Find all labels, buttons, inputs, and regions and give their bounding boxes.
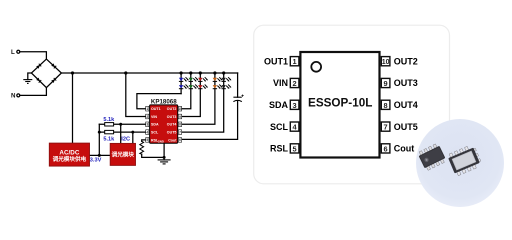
- svg-text:调光模块供电: 调光模块供电: [53, 155, 87, 163]
- wire SCL row: [99, 131, 145, 133]
- node rail/VIN: [124, 71, 127, 74]
- U1 pin 2 box: [146, 114, 149, 119]
- svg-text:1: 1: [293, 57, 297, 66]
- node rail/AC-DC: [71, 71, 74, 74]
- U1 pin 4 box: [146, 130, 149, 135]
- diode D1 (bridge top-left): [36, 64, 41, 69]
- wire rail to VIN pin: [126, 73, 146, 117]
- svg-text:调光模块: 调光模块: [112, 150, 135, 158]
- svg-text:3.3V: 3.3V: [90, 157, 102, 163]
- LED string 1 (blue): [179, 77, 189, 89]
- U1 pin 9 box: [178, 114, 181, 119]
- diode D3 (bridge bottom-left): [36, 78, 41, 83]
- U2 pin 1 box: [290, 57, 299, 67]
- svg-text:N: N: [11, 93, 16, 100]
- U2 pin 6 box: [381, 144, 390, 154]
- terminal N: [17, 94, 20, 97]
- U2 pin 2 box: [290, 78, 299, 88]
- svg-text:7: 7: [179, 130, 181, 134]
- U1 pin labels right: [167, 107, 177, 142]
- IC package photo B (exposed pad up): [447, 144, 483, 177]
- U1 pin numbers left: [146, 107, 148, 142]
- wire capacitor C1 top to rail: [237, 73, 239, 97]
- svg-text:5: 5: [146, 138, 148, 142]
- U2 pin 8 box: [381, 100, 390, 110]
- svg-text:VIN: VIN: [151, 115, 157, 119]
- wire rail to AC/DC block: [72, 73, 74, 143]
- IC package photo A (SOP-8): [417, 143, 447, 172]
- block AC/DC power module: [49, 143, 89, 166]
- node rail/string1: [180, 71, 183, 74]
- node 3.3V riser: [98, 154, 101, 157]
- U1 pin 1 box: [146, 106, 149, 111]
- svg-text:SDA: SDA: [151, 123, 159, 127]
- svg-text:AC/DC: AC/DC: [59, 149, 79, 156]
- svg-text:OUT2: OUT2: [167, 107, 177, 111]
- card: [254, 25, 450, 184]
- svg-text:OUT1: OUT1: [264, 56, 288, 66]
- U2 pin-1 indicator circle: [311, 62, 321, 72]
- svg-text:Cout: Cout: [394, 144, 415, 154]
- resistor R1 5.1k: [105, 123, 114, 126]
- svg-text:ESSOP-10L: ESSOP-10L: [308, 97, 372, 110]
- U1 pin 3 box: [146, 122, 149, 127]
- pinout diagram U2 ESSOP-10L body: [300, 52, 379, 158]
- svg-text:1: 1: [146, 107, 148, 111]
- wire LED string 3 to OUT3: [182, 73, 201, 117]
- wire 3.3V rail from AC/DC: [89, 124, 110, 155]
- LED string 2 (green): [189, 77, 199, 89]
- wire L to bridge top: [20, 52, 47, 59]
- wire LED string 2 to OUT2: [182, 73, 191, 109]
- svg-text:6: 6: [384, 144, 388, 153]
- wire ground stub: [28, 73, 32, 80]
- badge circle: [416, 119, 504, 207]
- node 3.3V/SCL: [98, 131, 101, 134]
- node R3/GND: [163, 156, 166, 159]
- svg-text:OUT5: OUT5: [394, 122, 418, 132]
- svg-text:OUT2: OUT2: [394, 56, 418, 66]
- svg-text:I2C: I2C: [121, 136, 130, 142]
- svg-text:VIN: VIN: [273, 78, 288, 88]
- svg-text:3: 3: [146, 123, 148, 127]
- U2 pin 9 box: [381, 78, 390, 88]
- svg-text:OUT5: OUT5: [167, 131, 177, 135]
- node rail/string4: [213, 71, 216, 74]
- svg-text:2: 2: [293, 79, 297, 88]
- svg-text:5: 5: [293, 144, 297, 153]
- U2 pin 4 box: [290, 122, 299, 132]
- svg-text:L: L: [11, 49, 15, 56]
- ground (bridge): [23, 80, 32, 84]
- U1 pin labels left: [151, 107, 161, 142]
- svg-text:OUT1: OUT1: [151, 107, 161, 111]
- svg-text:10: 10: [178, 107, 182, 111]
- svg-text:9: 9: [384, 79, 388, 88]
- svg-text:8: 8: [384, 101, 388, 110]
- wire SCL drop to dimmer module: [132, 132, 134, 143]
- svg-text:SCL: SCL: [151, 131, 159, 135]
- svg-text:RSL: RSL: [270, 144, 289, 154]
- U1 pin 7 box: [178, 130, 181, 135]
- svg-text:OUT4: OUT4: [394, 100, 418, 110]
- wire IC GND down: [163, 143, 165, 160]
- svg-text:4: 4: [146, 130, 148, 134]
- svg-text:2: 2: [146, 115, 148, 119]
- wire LED string 1: [180, 73, 182, 94]
- wire Cout to capacitor C1: [182, 101, 238, 140]
- wire RSL to resistor R3: [142, 140, 146, 141]
- op-amp U1 KP18068 body: [150, 105, 178, 143]
- LED string 3 (red): [198, 77, 208, 89]
- wire LED string 5 to OUT5: [182, 73, 224, 132]
- U1 pin 8 box: [178, 122, 181, 127]
- node SCL drop: [131, 131, 134, 134]
- svg-text:6: 6: [179, 138, 181, 142]
- U1 pin numbers right: [178, 107, 182, 142]
- diode D2 (bridge top-right): [51, 63, 56, 68]
- wire OUT1 over-the-top to LED string 1: [137, 94, 181, 109]
- LED string 5 (dark): [222, 77, 232, 89]
- svg-text:GND: GND: [158, 140, 164, 144]
- svg-text:3: 3: [293, 101, 297, 110]
- resistor R3 zigzag: [140, 141, 144, 154]
- svg-text:SDA: SDA: [269, 100, 289, 110]
- U2 pin 3 box: [290, 100, 299, 110]
- wire N to bridge bottom: [20, 88, 47, 95]
- U1 pin 6 box: [178, 138, 181, 143]
- svg-text:9: 9: [179, 115, 181, 119]
- svg-text:8: 8: [179, 123, 181, 127]
- svg-text:OUT3: OUT3: [167, 115, 177, 119]
- svg-text:5.1k: 5.1k: [103, 117, 115, 123]
- wire SDA row: [99, 123, 145, 125]
- block dimmer module: [110, 143, 135, 165]
- node rail/string5: [222, 71, 225, 74]
- svg-text:Cout: Cout: [168, 138, 177, 142]
- svg-text:OUT3: OUT3: [394, 78, 418, 88]
- svg-text:SCL: SCL: [270, 122, 289, 132]
- node rail/string2: [189, 71, 192, 74]
- capacitor C1: [233, 95, 243, 102]
- wire LED string 4 to OUT4: [182, 73, 215, 124]
- terminal L: [17, 50, 20, 53]
- U1 pin 5 box: [146, 138, 149, 143]
- node SDA drop: [119, 123, 122, 126]
- node rail/string3: [199, 71, 202, 74]
- U2 pin 10 box: [381, 57, 390, 67]
- main rectified rail: [61, 72, 237, 74]
- U2 pin 5 box: [290, 144, 299, 154]
- U2 pin labels right: [394, 56, 418, 153]
- U2 pin labels left: [264, 56, 289, 153]
- wire R3 to ground: [142, 154, 164, 157]
- resistor R2 5.1k: [105, 130, 114, 133]
- U2 pin 7 box: [381, 122, 390, 132]
- LED string 4 (orange): [213, 77, 223, 89]
- U1 pin 10 box: [178, 106, 181, 111]
- svg-text:7: 7: [384, 123, 388, 132]
- wire SDA drop to dimmer module: [120, 124, 122, 143]
- svg-text:10: 10: [382, 59, 390, 66]
- svg-text:KP18068: KP18068: [151, 99, 177, 106]
- svg-text:OUT4: OUT4: [167, 123, 177, 127]
- diode D4 (bridge bottom-right): [51, 78, 56, 83]
- bridge rectifier diamond: [31, 59, 61, 88]
- svg-text:5.1k: 5.1k: [103, 136, 115, 142]
- ground (IC): [158, 160, 171, 164]
